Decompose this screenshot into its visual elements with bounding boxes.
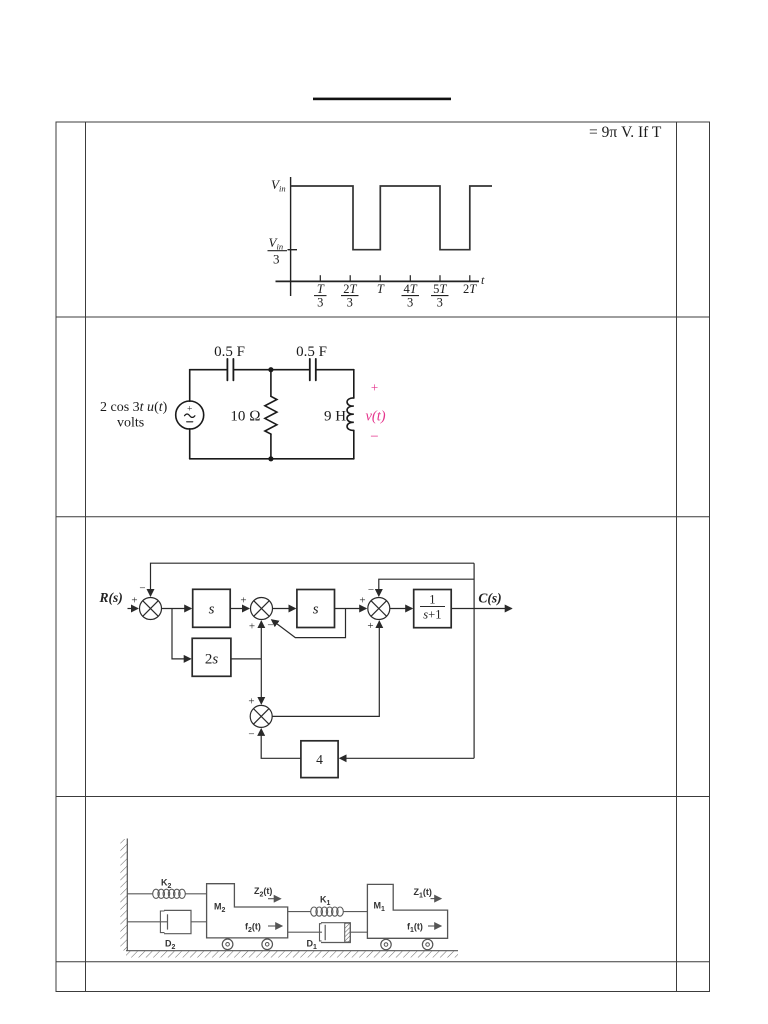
arrow f1 <box>428 925 441 927</box>
arrow Z1 <box>431 898 442 900</box>
wire G2 to summing junction S3 <box>335 608 367 610</box>
wire G4 output to branch node <box>231 658 261 660</box>
svg-text:+: + <box>371 380 378 395</box>
svg-text:−: − <box>368 584 374 596</box>
block G1 (s) <box>193 589 231 627</box>
wire S4 output right and up into S3 bottom <box>272 621 379 716</box>
arrow f2 <box>268 925 282 927</box>
axis tick T/3 <box>319 275 321 281</box>
square wave trace <box>291 186 492 250</box>
summing junction S2 <box>251 598 273 620</box>
wire: left branch above source <box>189 370 191 402</box>
mass M2 block <box>207 884 288 938</box>
wire: middle branch top <box>270 370 272 397</box>
svg-text:5T: 5T <box>433 282 447 296</box>
svg-text:= 9π V. If T: = 9π V. If T <box>589 124 662 141</box>
svg-text:volts: volts <box>117 416 144 431</box>
node B junction dot <box>268 456 273 461</box>
damper D1 hatched piston <box>345 923 351 942</box>
svg-text:+: + <box>249 621 255 633</box>
wire branch up into S2 bottom <box>260 621 262 659</box>
wall hatching <box>120 839 127 951</box>
wire: right branch bottom <box>353 430 355 458</box>
svg-text:−: − <box>370 429 378 445</box>
svg-text:+: + <box>187 405 192 415</box>
wire: bottom rail <box>190 458 354 460</box>
svg-text:v(t): v(t) <box>366 409 386 425</box>
svg-text:s+1: s+1 <box>423 608 441 622</box>
wire G1 to summing junction S2 <box>230 608 249 610</box>
wire: C2 to top right corner <box>317 369 354 371</box>
wire: middle branch bottom <box>270 434 272 459</box>
wire branch down into S4 top <box>260 659 262 704</box>
damper D1 right rod <box>350 931 367 933</box>
wire: C1 to node A <box>234 369 271 371</box>
summing junction S3 <box>368 598 390 620</box>
waveform time axis <box>276 280 480 282</box>
spring K2 right rod <box>185 893 206 895</box>
svg-text:4T: 4T <box>403 282 417 296</box>
svg-text:0.5 F: 0.5 F <box>214 344 245 360</box>
damper D1 piston plate <box>324 925 326 940</box>
svg-text:9 H: 9 H <box>324 409 346 425</box>
svg-text:−: − <box>139 583 145 595</box>
svg-text:3: 3 <box>437 296 443 310</box>
axis tick 5T/3 <box>439 275 441 281</box>
spring K1 right rod <box>343 911 367 913</box>
svg-text:4: 4 <box>316 752 323 767</box>
wall line <box>126 839 128 951</box>
wheel M1 left <box>381 939 391 949</box>
wire S1 to block G1 with branch node <box>162 608 192 610</box>
damper D2 cylinder <box>164 910 191 933</box>
voltage source VS circle <box>176 401 204 429</box>
bottom feedback wire into block G5 <box>340 757 474 759</box>
svg-text:T: T <box>377 282 385 296</box>
wire G5 output left and up into S4 bottom <box>261 729 301 758</box>
summing junction S1 <box>140 598 162 620</box>
damper D1 cylinder <box>321 923 350 943</box>
summing junction S4 <box>250 705 272 727</box>
svg-text:2s: 2s <box>205 652 219 668</box>
block G3 (1/(s+1)) <box>414 590 452 628</box>
axis tick T <box>379 275 381 281</box>
axis tick 4T/3 <box>409 275 411 281</box>
svg-text:+: + <box>367 620 373 632</box>
svg-text:0.5 F: 0.5 F <box>296 344 327 360</box>
output wire C(s) <box>451 608 511 610</box>
spring K1 coils <box>311 907 344 916</box>
svg-text:+: + <box>248 696 254 708</box>
capacitor C1 0.5F plates <box>226 359 228 381</box>
svg-text:1: 1 <box>429 593 435 607</box>
svg-text:3: 3 <box>273 252 280 267</box>
svg-text:+: + <box>240 595 246 607</box>
wire: node A to capacitor C2 <box>271 369 309 371</box>
damper D1 piston cup <box>320 924 322 941</box>
svg-text:2 cos 3t u(t): 2 cos 3t u(t) <box>100 400 168 415</box>
block G2 (s) <box>297 590 335 628</box>
svg-text:3: 3 <box>347 296 353 310</box>
svg-text:+: + <box>359 595 365 607</box>
ground hatching <box>126 951 458 957</box>
spring K2 left rod <box>127 893 152 895</box>
node A junction dot <box>268 367 273 372</box>
svg-text:2T: 2T <box>463 282 477 296</box>
Vin/3 level tick on axis <box>288 249 298 251</box>
arrow Z2 <box>268 898 281 900</box>
feedback from G2 output to S2 (diagonal) <box>272 609 346 638</box>
damper D2 piston plate <box>167 914 169 929</box>
axis tick 2T <box>469 275 471 281</box>
svg-text:−: − <box>248 729 254 741</box>
svg-text:+: + <box>131 595 137 607</box>
wheel M2 right <box>262 939 273 950</box>
thick separator line at top <box>313 98 451 101</box>
outer feedback top wire to S1 <box>151 563 475 596</box>
svg-text:3: 3 <box>317 296 323 310</box>
svg-text:2T: 2T <box>343 282 357 296</box>
wire: top left segment to capacitor C1 <box>190 369 227 371</box>
wheel M1 right <box>422 939 432 949</box>
axis tick 2T/3 <box>349 275 351 281</box>
wire: right branch top <box>353 370 355 398</box>
damper D1 left rod <box>288 931 322 933</box>
svg-text:10 Ω: 10 Ω <box>230 409 260 425</box>
damper D2 left rod <box>127 921 167 923</box>
damper D2 right rod <box>191 921 207 923</box>
ground line <box>126 950 458 952</box>
svg-text:R(s): R(s) <box>99 590 123 605</box>
feedback tap vertical from output <box>473 563 475 758</box>
spring K2 coils <box>153 889 186 898</box>
capacitor C2 0.5F plates <box>309 359 311 381</box>
branch node after S1 down to block G4 <box>172 609 191 659</box>
spring K1 left rod <box>288 911 311 913</box>
wheel M2 left <box>222 939 233 950</box>
input arrow into summing junction S1 <box>128 608 138 610</box>
svg-text:s: s <box>313 602 319 618</box>
mass M1 block <box>367 884 447 938</box>
wire: left branch below source <box>189 429 191 459</box>
waveform vertical axis <box>290 177 292 296</box>
svg-text:3: 3 <box>407 296 413 310</box>
inner feedback top wire to S3 <box>379 579 474 596</box>
svg-text:C(s): C(s) <box>478 591 501 606</box>
inductor L1 9H coils <box>347 398 354 430</box>
resistor R1 10 ohm zigzag <box>265 396 277 434</box>
block G5 (4) <box>301 741 338 778</box>
wire S2 to block G2 <box>273 608 296 610</box>
wire S3 to block G3 <box>390 608 412 610</box>
damper D2 piston cup <box>160 911 164 933</box>
svg-text:s: s <box>209 602 215 618</box>
block G4 (2s) <box>192 638 231 676</box>
svg-text:T: T <box>317 282 325 296</box>
